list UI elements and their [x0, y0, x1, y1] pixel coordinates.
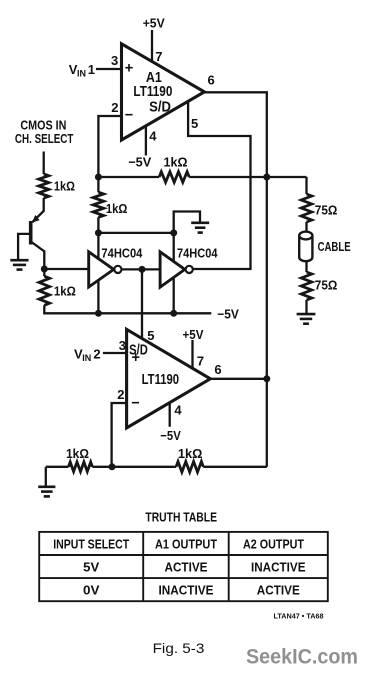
svg-text:−: −: [131, 395, 139, 411]
svg-text:7: 7: [197, 354, 204, 369]
svg-text:6: 6: [208, 73, 215, 88]
svg-text:S/D: S/D: [149, 100, 171, 116]
svg-text:+: +: [125, 61, 133, 77]
svg-text:1kΩ: 1kΩ: [66, 446, 89, 461]
svg-text:LT1190: LT1190: [142, 372, 180, 388]
svg-text:−5V: −5V: [128, 154, 151, 169]
svg-text:ACTIVE: ACTIVE: [165, 559, 208, 574]
svg-text:75Ω: 75Ω: [315, 277, 338, 292]
svg-text:1kΩ: 1kΩ: [54, 284, 76, 299]
svg-text:4: 4: [149, 129, 157, 144]
svg-text:INACTIVE: INACTIVE: [251, 559, 306, 574]
svg-text:LT1190: LT1190: [133, 84, 172, 100]
svg-text:LTAN47 • TA68: LTAN47 • TA68: [274, 612, 324, 621]
svg-text:+5V: +5V: [143, 16, 165, 31]
svg-text:74HC04: 74HC04: [101, 246, 143, 261]
svg-text:A2 OUTPUT: A2 OUTPUT: [243, 536, 304, 551]
svg-text:−: −: [125, 108, 133, 124]
svg-text:2: 2: [117, 387, 124, 402]
svg-text:7: 7: [155, 49, 162, 64]
svg-text:INPUT SELECT: INPUT SELECT: [53, 536, 129, 551]
svg-text:75Ω: 75Ω: [315, 203, 338, 218]
svg-text:6: 6: [214, 362, 221, 377]
svg-text:4: 4: [174, 403, 182, 418]
svg-text:1: 1: [88, 62, 95, 77]
svg-text:A1 OUTPUT: A1 OUTPUT: [155, 536, 217, 551]
svg-text:TRUTH TABLE: TRUTH TABLE: [145, 510, 217, 525]
svg-text:Fig. 5-3: Fig. 5-3: [153, 640, 205, 656]
svg-text:IN: IN: [77, 69, 86, 79]
svg-text:+: +: [132, 350, 140, 366]
svg-text:2: 2: [111, 100, 118, 115]
svg-text:74HC04: 74HC04: [177, 246, 218, 261]
svg-text:2: 2: [93, 346, 100, 361]
svg-text:5V: 5V: [83, 559, 99, 574]
svg-text:1kΩ: 1kΩ: [106, 201, 128, 216]
svg-text:0V: 0V: [83, 583, 100, 598]
svg-text:IN: IN: [82, 353, 91, 363]
svg-text:CH. SELECT: CH. SELECT: [15, 131, 74, 146]
svg-text:1kΩ: 1kΩ: [54, 178, 75, 193]
svg-text:SeekIC.com: SeekIC.com: [246, 646, 358, 669]
svg-text:ACTIVE: ACTIVE: [257, 583, 300, 598]
svg-text:−5V: −5V: [160, 428, 181, 443]
svg-text:3: 3: [119, 338, 126, 353]
svg-text:5: 5: [147, 328, 154, 343]
svg-text:+5V: +5V: [183, 327, 204, 342]
svg-text:1kΩ: 1kΩ: [178, 446, 203, 461]
svg-text:INACTIVE: INACTIVE: [159, 583, 214, 598]
svg-text:5: 5: [191, 116, 198, 131]
svg-text:CABLE: CABLE: [318, 239, 351, 254]
svg-text:3: 3: [111, 53, 118, 68]
svg-text:−5V: −5V: [217, 307, 239, 322]
svg-text:1kΩ: 1kΩ: [164, 154, 188, 169]
